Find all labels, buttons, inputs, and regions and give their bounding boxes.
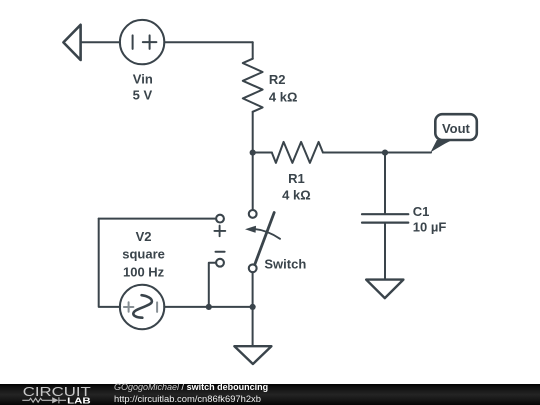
svg-text:LAB: LAB bbox=[67, 395, 91, 405]
svg-text:V2: V2 bbox=[136, 229, 152, 244]
wire node A down to switch bbox=[252, 153, 254, 210]
svg-text:square: square bbox=[122, 247, 165, 262]
V2 internal minus bar bbox=[156, 302, 158, 312]
svg-text:100 Hz: 100 Hz bbox=[123, 264, 165, 279]
attribution text bbox=[114, 382, 268, 405]
wire R1 to Vout node bbox=[323, 152, 431, 154]
wire Vin to top corner bbox=[164, 41, 252, 43]
V2 internal plus bbox=[124, 302, 133, 312]
left rail wire down bbox=[99, 219, 121, 307]
switch bottom terminal circle bbox=[249, 264, 257, 272]
V2 plus terminal circle bbox=[216, 215, 224, 223]
Vout flag box bbox=[435, 114, 477, 140]
wire plus terminal to left rail bbox=[99, 218, 216, 220]
wire C1 to ground bbox=[384, 223, 386, 280]
wire node A to R1 bbox=[253, 152, 272, 154]
CircuitLab logo bbox=[0, 384, 110, 405]
svg-text:10 µF: 10 µF bbox=[413, 219, 447, 234]
svg-text:R2: R2 bbox=[269, 72, 286, 87]
wire bottom node to ground bbox=[252, 307, 254, 346]
wire minus terminal down bbox=[209, 263, 216, 307]
wire node B down to C1 bbox=[384, 153, 386, 215]
svg-text:Vin: Vin bbox=[133, 72, 153, 87]
V2 minus terminal circle bbox=[216, 259, 224, 267]
ground under switch bbox=[234, 346, 271, 364]
svg-text:Switch: Switch bbox=[264, 257, 306, 272]
switch blade bbox=[255, 213, 274, 265]
bottom bar bbox=[0, 384, 540, 405]
wire V2 flag pointer (Vout) bbox=[430, 140, 453, 153]
wire triangle to Vin bbox=[81, 41, 120, 43]
voltage source Vin circle bbox=[120, 20, 164, 64]
resistor R1 zigzag bbox=[272, 142, 323, 163]
resistor R2 zigzag bbox=[243, 59, 263, 112]
plus sign bbox=[214, 226, 225, 237]
ground under C1 bbox=[366, 280, 403, 299]
input port triangle (Vin terminal) bbox=[63, 25, 80, 60]
Vin plus sign bbox=[143, 35, 157, 49]
svg-text:R1: R1 bbox=[288, 171, 305, 186]
svg-text:Vout: Vout bbox=[442, 121, 471, 136]
svg-text:4 kΩ: 4 kΩ bbox=[269, 89, 298, 104]
switch arc arrow bbox=[254, 229, 280, 239]
wire switch to bottom node bbox=[252, 272, 254, 307]
node A junction dot bbox=[250, 150, 256, 156]
svg-text:C1: C1 bbox=[413, 204, 430, 219]
voltage source V2 circle bbox=[120, 285, 164, 329]
bottom node dot right bbox=[250, 304, 256, 310]
Vin minus bar bbox=[132, 35, 134, 49]
capacitor C1 plates bbox=[362, 214, 408, 222]
switch top terminal circle bbox=[249, 210, 257, 218]
wire corner down to R2 bbox=[252, 42, 254, 59]
bottom node dot left bbox=[206, 304, 212, 310]
node B junction dot bbox=[382, 150, 388, 156]
V2 square-wave squiggle bbox=[133, 295, 152, 318]
minus sign bbox=[216, 251, 225, 253]
wire V2 right to bottom node bbox=[164, 306, 252, 308]
svg-text:5 V: 5 V bbox=[133, 88, 153, 103]
wire R2 to node A bbox=[252, 112, 254, 153]
svg-text:4 kΩ: 4 kΩ bbox=[282, 187, 311, 202]
